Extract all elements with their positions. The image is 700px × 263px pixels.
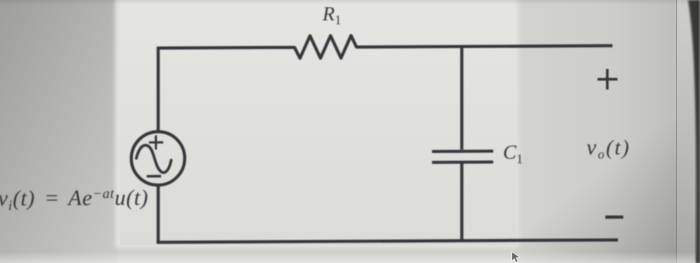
svg-text:C1: C1 bbox=[503, 142, 523, 167]
svg-text:vo(t): vo(t) bbox=[587, 134, 631, 161]
svg-text:R1: R1 bbox=[322, 3, 342, 27]
svg-text:vi(t) = Ae−atu(t): vi(t) = Ae−atu(t) bbox=[0, 185, 149, 214]
